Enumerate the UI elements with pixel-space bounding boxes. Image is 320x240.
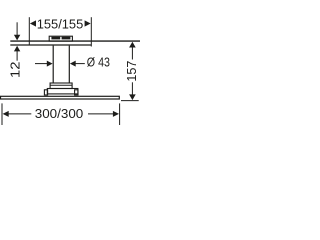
dim 157 down arrowhead	[129, 94, 136, 100]
pipe left wall	[52, 46, 54, 83]
dim diameter 43 left-pointing arrowhead	[70, 61, 76, 67]
dim 300/300 right arrowhead	[113, 111, 119, 117]
svg-text:Ø 43: Ø 43	[87, 55, 110, 70]
shower head plate	[1, 96, 120, 99]
dim diameter 43 right-pointing arrowhead	[47, 61, 53, 67]
dim 300/300 right dim line	[88, 113, 115, 115]
dim 157 lower stem	[131, 82, 133, 95]
base outline	[47, 89, 78, 94]
dim 155/155 left extension line	[28, 17, 30, 45]
dim 300/300 left arrowhead	[3, 111, 9, 117]
dim 12 down arrowhead	[14, 35, 20, 41]
dim diameter 43 right leader	[75, 63, 85, 65]
pipe right wall	[68, 46, 70, 83]
mounting box right bar	[62, 37, 71, 40]
svg-text:12: 12	[7, 62, 22, 79]
dim 155/155 left arrowhead	[30, 20, 36, 26]
mounting box left bar	[51, 37, 60, 40]
dim diameter 43 left leader	[35, 63, 48, 65]
right lug	[75, 90, 78, 95]
dim 300/300 right extension line	[119, 103, 121, 125]
collar outline	[50, 83, 72, 89]
dim 157 up arrowhead	[129, 42, 136, 48]
dim 300/300 left extension line	[1, 103, 3, 125]
dim 12 up arrowhead	[14, 46, 20, 52]
svg-text:155/155: 155/155	[37, 17, 84, 32]
dim 157 upper stem	[131, 47, 133, 60]
dim 155/155 right arrowhead	[85, 20, 91, 26]
svg-text:300/300: 300/300	[35, 106, 84, 121]
dim 12 lower stem	[16, 51, 18, 61]
svg-text:157: 157	[124, 61, 139, 82]
dim 12 upper stem	[16, 22, 18, 35]
dim 155/155 right extension line	[90, 17, 92, 46]
escutcheon bottom line	[10, 44, 91, 46]
collar inner line	[50, 84, 72, 86]
mounting box above ceiling	[49, 36, 72, 41]
ceiling line	[10, 40, 140, 42]
left lug	[44, 90, 47, 95]
dim 157 bottom extension line	[121, 100, 139, 102]
dim 300/300 left dim line	[8, 113, 31, 115]
